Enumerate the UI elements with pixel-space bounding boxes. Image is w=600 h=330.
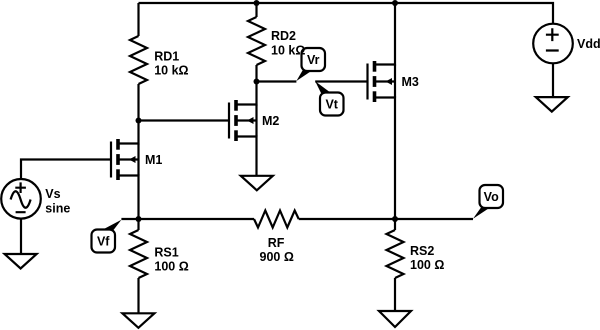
svg-text:RS2: RS2 <box>410 244 434 258</box>
svg-text:M3: M3 <box>402 75 419 89</box>
svg-text:Vf: Vf <box>97 235 110 249</box>
svg-text:Vs: Vs <box>45 187 60 201</box>
svg-text:10 kΩ: 10 kΩ <box>271 43 305 57</box>
svg-text:RF: RF <box>268 236 285 250</box>
svg-text:100 Ω: 100 Ω <box>154 260 188 274</box>
svg-text:M1: M1 <box>145 153 162 167</box>
svg-text:sine: sine <box>45 201 70 215</box>
svg-text:100 Ω: 100 Ω <box>410 258 444 272</box>
svg-text:M2: M2 <box>262 114 279 128</box>
svg-text:Vo: Vo <box>484 190 499 204</box>
svg-text:RD1: RD1 <box>154 50 179 64</box>
svg-text:RS1: RS1 <box>154 245 178 259</box>
svg-text:900 Ω: 900 Ω <box>260 250 294 264</box>
svg-text:Vt: Vt <box>325 98 338 112</box>
svg-text:10 kΩ: 10 kΩ <box>154 64 188 78</box>
svg-text:Vdd: Vdd <box>577 37 600 51</box>
svg-text:RD2: RD2 <box>271 29 296 43</box>
svg-text:Vr: Vr <box>307 53 320 67</box>
